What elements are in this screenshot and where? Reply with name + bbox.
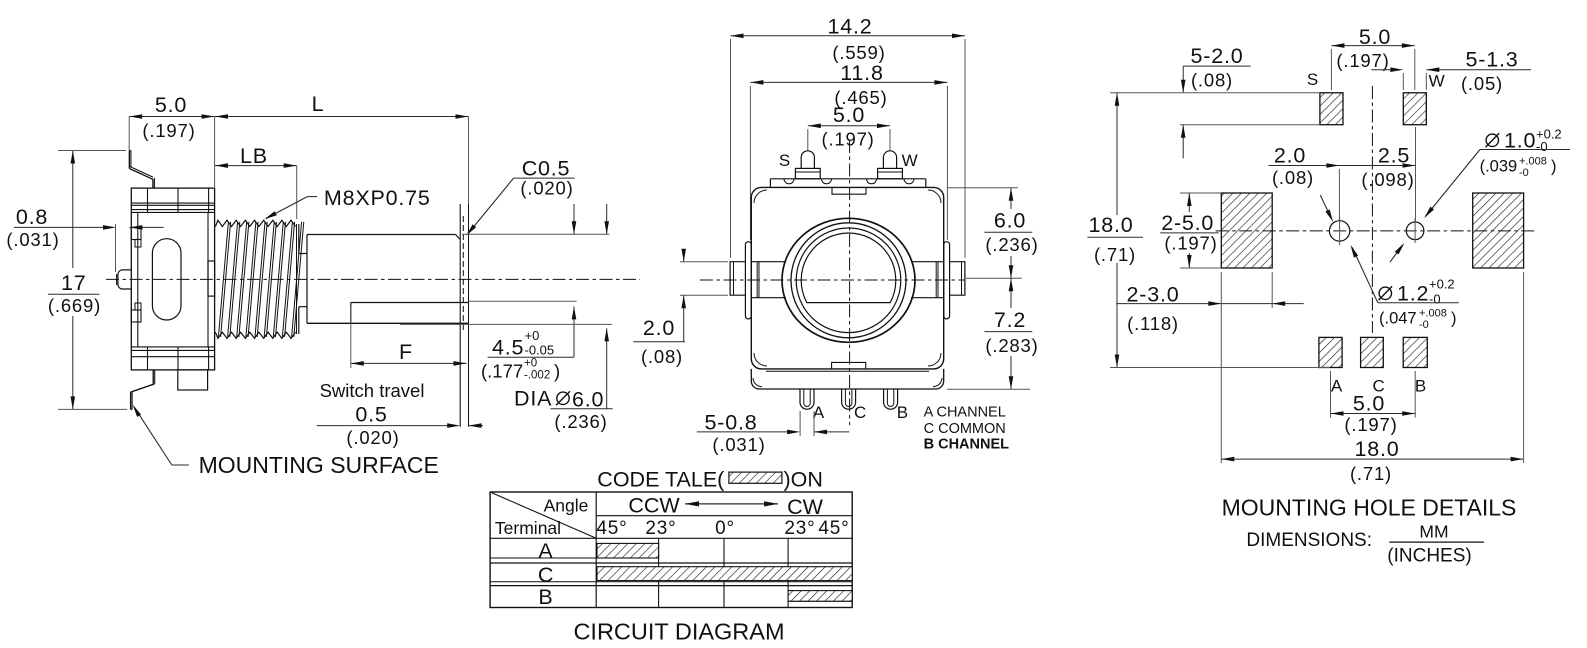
svg-text:(.197): (.197) (822, 128, 875, 149)
svg-text:C COMMON: C COMMON (924, 421, 1006, 437)
svg-text:CODE TALE(: CODE TALE( (597, 468, 725, 492)
svg-text:(.71): (.71) (1094, 244, 1136, 265)
svg-text:(INCHES): (INCHES) (1387, 546, 1471, 567)
svg-text:(.020): (.020) (520, 178, 573, 199)
svg-text:(.197): (.197) (1164, 233, 1217, 254)
svg-text:6.0: 6.0 (994, 209, 1026, 233)
svg-text:(.047: (.047 (1379, 310, 1417, 328)
svg-text:2.0: 2.0 (1274, 144, 1306, 168)
svg-text:): ) (554, 360, 560, 381)
svg-text:-.002: -.002 (524, 370, 550, 382)
svg-text:+0: +0 (525, 328, 540, 343)
svg-text:W: W (1429, 72, 1446, 91)
svg-text:-0: -0 (1419, 319, 1429, 331)
svg-text:S: S (1307, 70, 1319, 89)
svg-text:14.2: 14.2 (827, 15, 872, 39)
svg-text:DIMENSIONS:: DIMENSIONS: (1246, 530, 1372, 551)
svg-text:Angle: Angle (544, 495, 589, 515)
svg-text:(.031): (.031) (6, 229, 59, 250)
svg-text:): ) (1551, 158, 1557, 176)
svg-text:L: L (312, 92, 325, 116)
svg-text:5-1.3: 5-1.3 (1465, 48, 1518, 72)
svg-text:B: B (538, 585, 553, 609)
svg-text:DIA: DIA (514, 387, 552, 411)
svg-text:)ON: )ON (784, 468, 823, 492)
svg-text:B CHANNEL: B CHANNEL (924, 436, 1010, 452)
svg-text:(.71): (.71) (1350, 463, 1392, 484)
svg-text:(.05): (.05) (1461, 73, 1503, 94)
svg-text:A CHANNEL: A CHANNEL (924, 405, 1006, 421)
svg-text:Switch travel: Switch travel (320, 380, 425, 401)
svg-text:-0: -0 (1429, 292, 1441, 307)
svg-text:45°: 45° (818, 518, 849, 539)
svg-text:(.197): (.197) (142, 120, 195, 141)
svg-text:(.039: (.039 (1480, 158, 1518, 176)
svg-text:(.283): (.283) (985, 335, 1038, 356)
svg-text:LB: LB (240, 144, 268, 168)
svg-text:A: A (813, 403, 825, 422)
svg-text:(.08): (.08) (641, 346, 683, 367)
svg-text:A: A (1331, 377, 1343, 396)
svg-text:0.8: 0.8 (16, 205, 48, 229)
svg-text:CIRCUIT DIAGRAM: CIRCUIT DIAGRAM (573, 619, 784, 645)
svg-text:2-3.0: 2-3.0 (1126, 283, 1179, 307)
svg-text:5-2.0: 5-2.0 (1190, 44, 1243, 68)
svg-text:+0: +0 (524, 358, 537, 370)
svg-text:(.031): (.031) (712, 434, 765, 455)
svg-text:18.0: 18.0 (1088, 213, 1133, 237)
svg-text:(.020): (.020) (346, 427, 399, 448)
svg-text:C: C (538, 563, 554, 587)
svg-text:2.0: 2.0 (643, 316, 675, 340)
svg-text:5.0: 5.0 (833, 103, 865, 127)
svg-text:S: S (779, 151, 791, 170)
svg-text:18.0: 18.0 (1354, 437, 1399, 461)
svg-text:CW: CW (787, 495, 824, 519)
svg-text:23°: 23° (784, 518, 815, 539)
svg-text:C0.5: C0.5 (522, 156, 571, 180)
svg-text:(.118): (.118) (1127, 313, 1179, 334)
svg-text:4.5: 4.5 (492, 336, 524, 360)
svg-text:Terminal: Terminal (495, 518, 561, 538)
svg-text:(.197): (.197) (1344, 414, 1397, 435)
svg-text:MM: MM (1419, 522, 1448, 542)
svg-text:0.5: 0.5 (355, 403, 387, 427)
svg-text:17: 17 (61, 271, 87, 295)
svg-text:45°: 45° (596, 518, 627, 539)
svg-text:(.559): (.559) (832, 42, 885, 63)
svg-text:(.236): (.236) (554, 411, 607, 432)
svg-text:+0.2: +0.2 (1429, 277, 1455, 292)
svg-text:+.008: +.008 (1519, 156, 1547, 168)
svg-text:5-0.8: 5-0.8 (704, 410, 757, 434)
svg-text:5.0: 5.0 (1353, 392, 1385, 416)
svg-text:(.08): (.08) (1191, 70, 1233, 91)
svg-text:A: A (538, 539, 553, 563)
svg-text:6.0: 6.0 (572, 388, 604, 412)
svg-text:(.669): (.669) (48, 295, 101, 316)
svg-text:(.098): (.098) (1361, 169, 1414, 190)
svg-text:-0.05: -0.05 (525, 343, 555, 358)
svg-text:5.0: 5.0 (155, 93, 187, 117)
svg-text:-0: -0 (1536, 139, 1548, 154)
svg-text:1.2: 1.2 (1397, 281, 1429, 305)
svg-text:-0: -0 (1519, 167, 1529, 179)
svg-text:W: W (902, 151, 919, 170)
svg-text:(.177: (.177 (481, 360, 523, 381)
svg-text:+.008: +.008 (1419, 308, 1447, 320)
svg-text:B: B (1415, 377, 1427, 396)
svg-text:C: C (854, 403, 867, 422)
svg-text:CCW: CCW (628, 494, 680, 518)
svg-text:23°: 23° (645, 518, 676, 539)
svg-text:MOUNTING HOLE DETAILS: MOUNTING HOLE DETAILS (1222, 495, 1517, 521)
svg-text:F: F (399, 340, 413, 364)
svg-text:M8XP0.75: M8XP0.75 (324, 186, 431, 210)
svg-text:(.236): (.236) (985, 234, 1038, 255)
svg-text:0°: 0° (715, 518, 735, 539)
svg-text:11.8: 11.8 (840, 61, 883, 85)
svg-text:MOUNTING SURFACE: MOUNTING SURFACE (199, 452, 439, 478)
svg-text:7.2: 7.2 (994, 308, 1026, 332)
svg-text:2-5.0: 2-5.0 (1161, 211, 1214, 235)
svg-text:B: B (897, 403, 909, 422)
svg-text:(.08): (.08) (1272, 167, 1314, 188)
svg-text:(.197): (.197) (1336, 50, 1389, 71)
svg-text:): ) (1451, 310, 1457, 328)
